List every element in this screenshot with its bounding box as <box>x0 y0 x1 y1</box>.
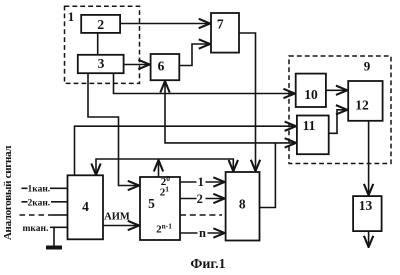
wire 3 to 6 <box>124 64 150 66</box>
block 8 <box>226 172 260 241</box>
svg-text:11: 11 <box>303 118 316 133</box>
svg-text:3: 3 <box>98 56 105 71</box>
svg-text:10: 10 <box>304 87 318 102</box>
svg-text:9: 9 <box>364 59 371 74</box>
block 11 <box>297 116 329 155</box>
wire 10 to 12 <box>326 89 347 91</box>
wire 13 out <box>368 231 370 247</box>
svg-text:Аналоговый сигнал: Аналоговый сигнал <box>2 146 14 240</box>
svg-text:6: 6 <box>158 59 165 74</box>
wire 2 to 7 <box>120 23 210 25</box>
input channel 2 <box>22 201 68 203</box>
block 5 <box>140 177 180 240</box>
block 7 <box>211 13 239 53</box>
svg-text:12: 12 <box>355 98 369 113</box>
wire 7 to 8 <box>239 33 256 171</box>
svg-text:8: 8 <box>239 197 246 212</box>
block 6 <box>151 54 180 80</box>
wire 8 feedback to 6 and 11 <box>260 143 276 208</box>
wire 12 to 13 <box>368 121 370 195</box>
wire 3 to 5 <box>88 73 139 185</box>
block 13 <box>353 196 382 231</box>
dashed box 9 <box>289 56 391 164</box>
wire 6 to 7 <box>179 44 209 66</box>
wire AIM 4 to 5 <box>103 225 139 227</box>
svg-text:4: 4 <box>82 199 89 214</box>
block 3 <box>78 55 124 73</box>
wire 2-3 <box>97 33 99 55</box>
wire 5 out n <box>180 232 224 234</box>
block 4 <box>68 175 104 239</box>
wire 5 out dashed <box>180 214 222 216</box>
input channel m <box>50 226 68 228</box>
wire 4 to 11 <box>75 126 296 175</box>
wire 11 to 12 <box>329 110 347 134</box>
svg-text:2: 2 <box>97 17 104 32</box>
svg-text:mкан.: mкан. <box>23 224 49 234</box>
ground <box>53 227 55 246</box>
bus wire to 4 and 8 <box>96 159 233 174</box>
input channel 1 <box>22 187 68 189</box>
dashed box 1 <box>65 6 140 83</box>
svg-text:1: 1 <box>198 175 204 189</box>
svg-text:21: 21 <box>160 184 170 198</box>
svg-text:1кан.: 1кан. <box>28 185 51 195</box>
wire 5 out 1 <box>180 181 224 183</box>
svg-text:5: 5 <box>148 196 155 211</box>
svg-text:7: 7 <box>217 17 224 32</box>
wire 5 up to bus <box>158 161 160 177</box>
svg-text:2кан.: 2кан. <box>28 198 51 208</box>
wire 5 out 2 <box>180 198 224 200</box>
svg-text:Фиг.1: Фиг.1 <box>190 257 225 272</box>
svg-text:1: 1 <box>68 9 75 24</box>
input channel dots <box>20 214 53 216</box>
block 12 <box>348 81 382 121</box>
svg-text:13: 13 <box>359 198 373 213</box>
svg-text:n: n <box>199 226 206 240</box>
wire 3 to 10 <box>114 73 295 93</box>
svg-text:2n-1: 2n-1 <box>156 221 172 235</box>
svg-text:АИМ: АИМ <box>104 212 130 223</box>
svg-text:2: 2 <box>197 192 203 206</box>
block 10 <box>296 74 326 107</box>
block 2 <box>81 15 120 33</box>
